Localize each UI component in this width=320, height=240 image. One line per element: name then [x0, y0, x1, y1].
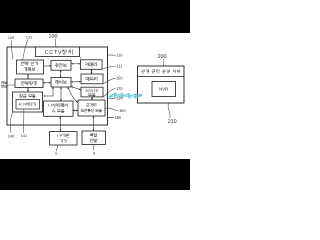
svg-text:NVR: NVR — [159, 87, 168, 92]
svg-text:IP: IP — [48, 103, 54, 108]
svg-text:IP: IP — [57, 133, 63, 138]
svg-text:120: 120 — [8, 36, 14, 40]
svg-text:111: 111 — [116, 64, 123, 69]
svg-text:CCTV: CCTV — [45, 50, 62, 56]
svg-text:141: 141 — [21, 133, 28, 138]
svg-text:200: 200 — [158, 54, 167, 60]
svg-text:5: 5 — [55, 152, 57, 156]
svg-text:110: 110 — [116, 53, 123, 58]
svg-text:3: 3 — [93, 151, 95, 155]
svg-text:180: 180 — [114, 115, 121, 120]
svg-text:130: 130 — [116, 96, 123, 101]
svg-text:160: 160 — [119, 108, 126, 113]
svg-text:140: 140 — [8, 133, 15, 138]
svg-text:210: 210 — [168, 119, 177, 125]
svg-text:RF: RF — [19, 103, 26, 107]
svg-text:4G/LTE: 4G/LTE — [85, 89, 99, 93]
svg-text:131: 131 — [26, 35, 32, 39]
svg-text:100: 100 — [49, 33, 58, 39]
svg-text:170: 170 — [116, 86, 123, 91]
svg-text:150: 150 — [116, 76, 123, 81]
